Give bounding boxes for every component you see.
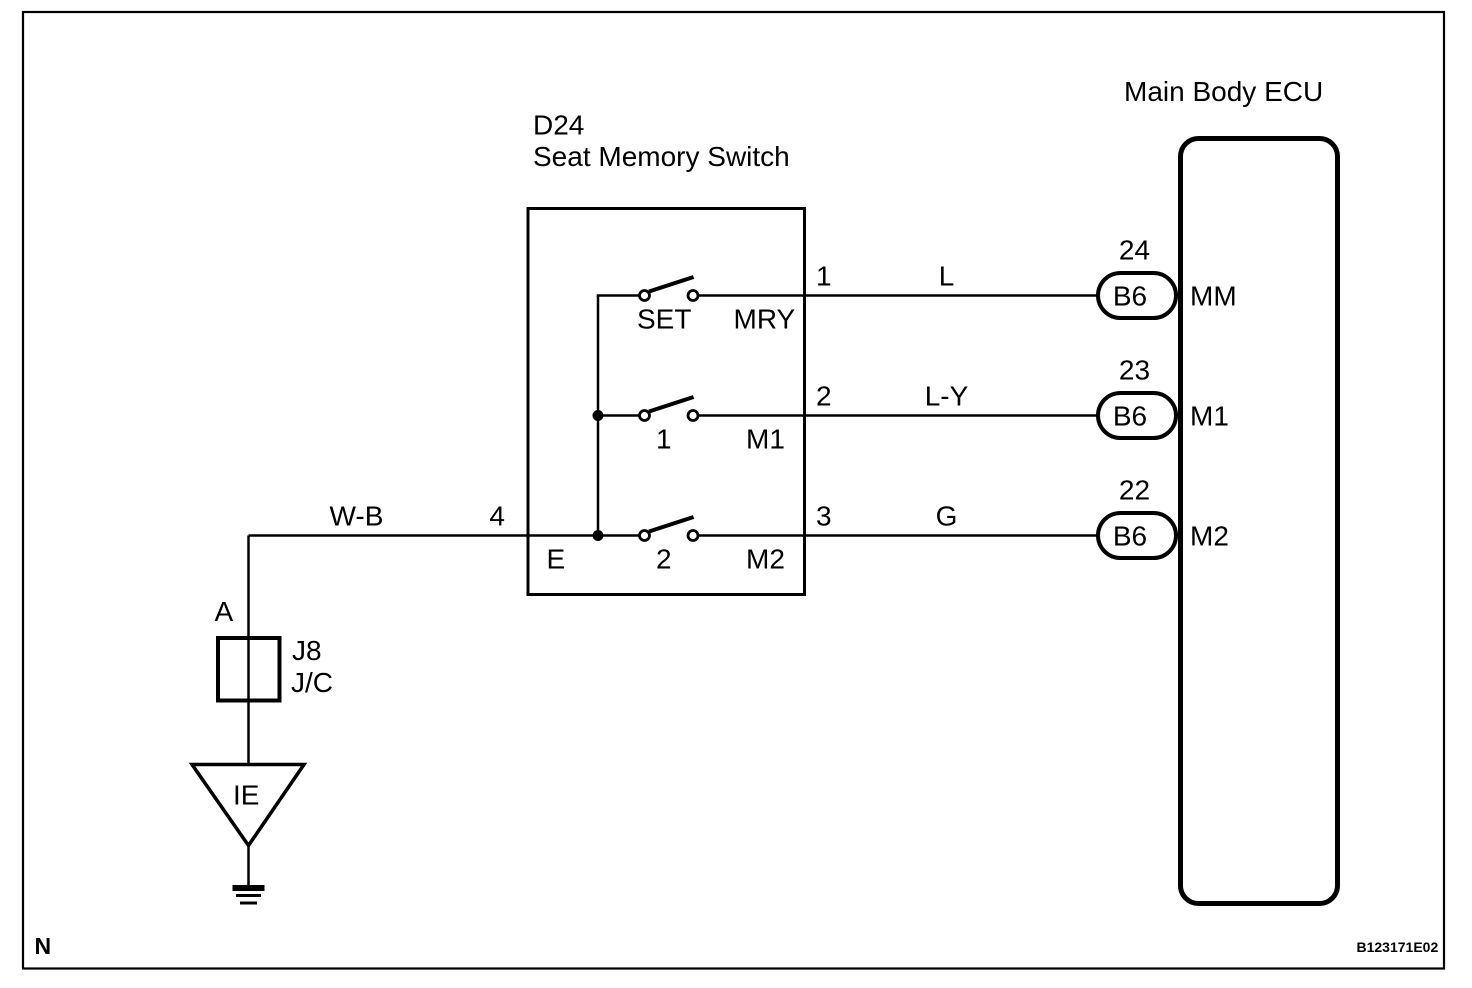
switch 1: contacts and blade — [640, 397, 699, 421]
ground triangle IE — [192, 765, 304, 846]
svg-text:M1: M1 — [746, 424, 785, 455]
svg-text:Seat Memory Switch: Seat Memory Switch — [533, 141, 790, 172]
connector B6 pin 24 oval — [1098, 235, 1176, 319]
svg-text:2: 2 — [816, 381, 832, 412]
wire: internal bus vertical — [597, 296, 600, 536]
svg-text:L: L — [939, 261, 955, 292]
svg-text:1: 1 — [656, 424, 672, 455]
ground symbol — [233, 888, 265, 903]
svg-text:L-Y: L-Y — [925, 381, 969, 412]
svg-text:D24: D24 — [533, 110, 584, 141]
svg-text:22: 22 — [1119, 475, 1150, 506]
svg-text:A: A — [215, 596, 234, 627]
svg-text:IE: IE — [233, 780, 259, 811]
wire: row3 switch to connector B6 pin 3 — [693, 534, 1100, 537]
svg-text:B123171E02: B123171E02 — [1357, 939, 1439, 955]
svg-text:2: 2 — [656, 544, 672, 575]
svg-text:B6: B6 — [1113, 281, 1147, 312]
junction dot row2 bus — [593, 410, 604, 421]
svg-text:M1: M1 — [1190, 401, 1229, 432]
wire: triangle apex to ground — [247, 846, 250, 888]
wire: vertical through J8 down to IE triangle — [247, 536, 250, 765]
switch box D24 — [528, 209, 805, 595]
svg-text:MM: MM — [1190, 281, 1237, 312]
svg-text:W-B: W-B — [330, 501, 384, 532]
svg-text:SET: SET — [637, 304, 691, 335]
connector U1: Main Body ECU body — [1181, 139, 1338, 904]
svg-text:M2: M2 — [746, 544, 785, 575]
wire: row1 switch to connector B6 pin 1 — [693, 294, 1100, 297]
svg-text:G: G — [936, 501, 958, 532]
svg-text:3: 3 — [816, 501, 832, 532]
svg-text:J8: J8 — [292, 635, 322, 666]
wire: row2 bus to switch 1 — [598, 414, 645, 417]
svg-text:E: E — [547, 544, 566, 575]
svg-text:B6: B6 — [1113, 401, 1147, 432]
svg-text:M2: M2 — [1190, 521, 1229, 552]
wire: row2 switch to connector B6 pin 2 — [693, 414, 1100, 417]
connector B6 pin 22 oval — [1098, 475, 1176, 559]
switch 2: contacts and blade — [640, 517, 699, 541]
svg-text:J/C: J/C — [291, 667, 333, 698]
svg-text:N: N — [35, 933, 52, 959]
junction dot row3 bus — [593, 530, 604, 541]
svg-text:23: 23 — [1119, 355, 1150, 386]
switch SET: contacts and blade — [640, 277, 699, 301]
junction connector J8 box — [218, 638, 280, 701]
connector B6 pin 23 oval — [1098, 355, 1176, 439]
wire: row1 bus to SET switch — [597, 294, 645, 297]
svg-text:MRY: MRY — [734, 304, 796, 335]
wire: row3 external W-B wire into box to switch 2 — [249, 534, 645, 537]
svg-text:4: 4 — [489, 501, 505, 532]
svg-text:Main Body ECU: Main Body ECU — [1124, 76, 1323, 107]
svg-text:1: 1 — [816, 261, 832, 292]
svg-text:24: 24 — [1119, 235, 1150, 266]
svg-text:B6: B6 — [1113, 521, 1147, 552]
